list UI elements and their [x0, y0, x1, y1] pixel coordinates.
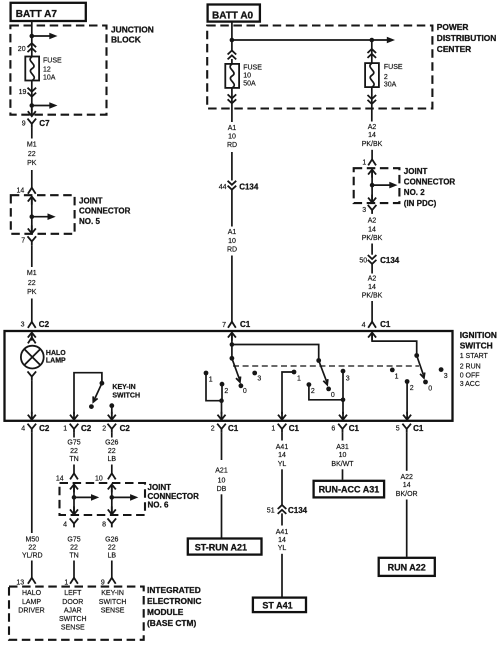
- JC6 right bus node: [110, 495, 115, 500]
- svg-text:HALO: HALO: [46, 350, 66, 357]
- svg-text:BATT A0: BATT A0: [212, 10, 254, 21]
- wafer 3 contact 3: [439, 367, 448, 380]
- svg-text:BATT A7: BATT A7: [16, 9, 58, 20]
- svg-text:RUN-ACC A31: RUN-ACC A31: [319, 485, 380, 495]
- svg-text:7: 7: [21, 238, 25, 245]
- wire G75 to CTM: [73, 561, 75, 579]
- svg-text:2: 2: [102, 426, 106, 433]
- svg-text:10: 10: [243, 73, 251, 80]
- wafer 3 position 0 dot: [423, 380, 432, 393]
- svg-text:C2: C2: [39, 320, 50, 329]
- fuse F12: [25, 57, 39, 81]
- fuse 10 value label: [243, 65, 262, 88]
- wafer 1 contact wiring to pin 2 C1: [206, 373, 222, 401]
- connector C1 pin 5: [396, 424, 424, 433]
- wafer 2 contact 3: [341, 369, 350, 383]
- wire into fuse 10: [231, 59, 233, 64]
- svg-text:A1: A1: [228, 229, 237, 236]
- wire G75 to JC6: [73, 465, 75, 474]
- svg-text:SWITCH: SWITCH: [112, 392, 140, 399]
- connector C2 pin 2: [102, 424, 130, 433]
- wafer 3 feed wire: [372, 333, 417, 356]
- svg-text:G75: G75: [67, 440, 80, 447]
- svg-text:FUSE: FUSE: [43, 57, 62, 64]
- wafer 3 blade to position 0: [417, 356, 425, 378]
- svg-text:4: 4: [21, 426, 25, 433]
- wire label M1 22 PK: [27, 141, 37, 167]
- PDC bus wire with arrow: [232, 37, 395, 44]
- destination box ST A41: [253, 598, 306, 613]
- wafer 1 contact 2 stub: [221, 384, 223, 401]
- feed arrow right from node: [32, 102, 58, 109]
- wafer 1 contact 0: [239, 383, 247, 395]
- power distribution center label: [437, 22, 497, 54]
- JC6 pin 14 connector: [56, 473, 78, 482]
- wire A1 to ignition connector C1: [231, 256, 233, 322]
- CTM left door ajar switch sense label: [59, 590, 87, 632]
- fuse 12 value label: [43, 57, 62, 81]
- svg-text:NO. 6: NO. 6: [148, 500, 169, 509]
- svg-text:13: 13: [16, 579, 24, 586]
- wire label G75 22 TN upper: [67, 440, 80, 464]
- pin 5 C1 exit arrow: [403, 412, 411, 420]
- svg-text:AJAR: AJAR: [64, 608, 82, 615]
- fuse 2 value label: [384, 64, 403, 88]
- svg-text:2: 2: [224, 388, 228, 395]
- wafer 2 contacts 2+3 wiring to pin 6 C1: [309, 371, 343, 414]
- wire label A2 14 PK/BK middle: [362, 218, 383, 243]
- wafer 3 contact 1: [390, 368, 399, 381]
- svg-text:22: 22: [28, 151, 36, 158]
- wire G26 to JC6: [111, 465, 113, 474]
- svg-text:9: 9: [22, 121, 26, 128]
- svg-text:PK/BK: PK/BK: [362, 235, 383, 242]
- wire A21 from pin 2 C1: [221, 433, 223, 460]
- svg-text:KEY-IN: KEY-IN: [101, 590, 124, 597]
- joint connector no.6 dashed box: [60, 483, 146, 515]
- svg-text:YL: YL: [278, 545, 287, 552]
- svg-text:A2: A2: [368, 124, 377, 131]
- svg-text:LB: LB: [108, 456, 117, 463]
- svg-text:DISTRIBUTION: DISTRIBUTION: [437, 33, 497, 43]
- wire A41 below C134: [281, 513, 283, 525]
- wafer 1 pivot dot: [230, 356, 235, 361]
- svg-text:22: 22: [70, 544, 78, 551]
- wire label A31 10 BK/WT: [331, 444, 354, 468]
- svg-text:LAMP: LAMP: [22, 599, 41, 606]
- wafer 3 contact 2: [405, 379, 414, 392]
- svg-text:CONNECTOR: CONNECTOR: [404, 178, 456, 187]
- svg-text:IGNITION: IGNITION: [460, 330, 497, 340]
- svg-text:JUNCTION: JUNCTION: [111, 25, 154, 35]
- JC6 left exit arrow: [70, 506, 78, 514]
- svg-text:SENSE: SENSE: [61, 625, 85, 632]
- JC6 left entry arrow: [70, 484, 78, 492]
- wire BATT A7 to fuse 12: [31, 21, 33, 57]
- svg-text:INTEGRATED: INTEGRATED: [147, 585, 201, 595]
- svg-text:G26: G26: [105, 536, 118, 543]
- wire label A22 14 BK/OR: [396, 474, 418, 498]
- pin 1 C1 exit arrow: [278, 412, 286, 420]
- svg-text:10: 10: [228, 238, 236, 245]
- pin 2 C1 exit arrow: [218, 412, 226, 420]
- svg-text:A2: A2: [368, 276, 377, 283]
- wire M1 to ignition connector C2: [31, 299, 33, 323]
- svg-text:2 RUN: 2 RUN: [460, 363, 481, 370]
- JC2 exit arrow: [368, 195, 376, 203]
- wire M1 upper: [31, 128, 33, 139]
- svg-text:14: 14: [403, 482, 411, 489]
- fuse 2 bottom chevrons: [368, 95, 377, 104]
- svg-text:C2: C2: [81, 424, 92, 433]
- CTM pin 13 connector: [16, 578, 35, 587]
- svg-text:1: 1: [395, 373, 399, 380]
- integrated electronic module label: [147, 585, 201, 628]
- svg-text:22: 22: [108, 448, 116, 455]
- wafer 1 contact 2: [220, 382, 229, 395]
- wire A2 to C134: [371, 244, 373, 255]
- svg-text:A41: A41: [276, 529, 289, 536]
- svg-text:TN: TN: [69, 456, 78, 463]
- ignition switch box: [5, 331, 453, 421]
- svg-text:2: 2: [311, 388, 315, 395]
- wire A21 to ST-RUN box: [221, 494, 223, 537]
- svg-text:44: 44: [219, 184, 227, 191]
- wire label A1 10 RD upper: [227, 125, 237, 149]
- wire to pin 2 C1: [221, 401, 223, 414]
- JC6 right entry arrow: [108, 484, 116, 492]
- wire A41 to C134: [281, 469, 283, 504]
- connector C7 pin 9: [22, 108, 50, 128]
- svg-text:MODULE: MODULE: [147, 607, 184, 617]
- svg-text:1: 1: [63, 426, 67, 433]
- CTM halo lamp driver label: [18, 590, 44, 614]
- destination box RUN-ACC A31: [314, 481, 385, 498]
- JC6 pin 4 connector: [63, 518, 78, 528]
- wire A2 stub from bus: [371, 40, 373, 64]
- svg-text:14: 14: [56, 475, 64, 482]
- svg-text:10: 10: [339, 452, 347, 459]
- svg-text:CONNECTOR: CONNECTOR: [79, 207, 131, 216]
- svg-text:SWITCH: SWITCH: [460, 340, 493, 350]
- wire label A41 14 YL lower: [276, 529, 289, 552]
- svg-text:4: 4: [362, 322, 366, 329]
- svg-text:ST A41: ST A41: [262, 600, 292, 610]
- wafer 3 pivot dot: [414, 353, 419, 358]
- joint connector no.5 label: [79, 197, 131, 227]
- ignition switch gang dashed line: [233, 365, 419, 367]
- wire A2 below C134: [371, 264, 373, 274]
- wire label G26 22 LB upper: [105, 440, 118, 464]
- svg-text:3: 3: [257, 376, 261, 383]
- inline connector C134 pin 44: [219, 181, 259, 192]
- fuse 10 top chevrons: [228, 51, 237, 60]
- wire label M1 22 PK lower: [27, 270, 37, 296]
- halo lamp internal connector chevron: [28, 333, 36, 344]
- wafer 2 output node: [341, 398, 346, 403]
- destination box RUN A22: [379, 558, 435, 576]
- wire M50 from pin 4 C2: [31, 433, 33, 533]
- JC6 right internal wire: [111, 486, 113, 513]
- svg-text:(BASE CTM): (BASE CTM): [147, 618, 197, 628]
- svg-text:14: 14: [278, 452, 286, 459]
- JC6 left internal wire: [73, 486, 75, 513]
- wire G26 to CTM: [111, 561, 113, 579]
- inline connector C134 pin 50: [359, 255, 399, 265]
- wire A41 to ST box: [281, 554, 283, 597]
- switch wafer 3 entry arrow (pin 4 C1): [368, 333, 376, 341]
- key-in pin2 exit arrow: [108, 412, 116, 420]
- svg-text:DOOR: DOOR: [62, 599, 83, 606]
- svg-text:51: 51: [267, 507, 275, 514]
- svg-text:RD: RD: [227, 142, 237, 149]
- switch wafer 1 entry arrow (pin 7 C1): [228, 333, 236, 341]
- wafer 1 feed wire: [231, 333, 233, 359]
- key-in switch blade end dot: [89, 404, 94, 409]
- svg-text:JOINT: JOINT: [404, 167, 428, 176]
- svg-text:C134: C134: [288, 506, 308, 515]
- wire A41 from pin 1 C1: [281, 433, 283, 441]
- connector C1 pin 6: [331, 424, 359, 433]
- svg-text:C2: C2: [120, 424, 131, 433]
- svg-text:BK/WT: BK/WT: [331, 461, 354, 468]
- battery feed box BATT A7: [11, 3, 86, 21]
- svg-text:FUSE: FUSE: [243, 65, 262, 72]
- node load side of fuse 12: [30, 103, 35, 108]
- fuse 2 top chevrons: [368, 49, 377, 58]
- node fuse 2 feed: [370, 38, 375, 43]
- JC6 left bus node: [72, 495, 77, 500]
- svg-text:10A: 10A: [43, 74, 56, 81]
- wire BATT A0 down to bus: [231, 22, 233, 51]
- svg-text:1 START: 1 START: [460, 353, 489, 360]
- JC6 right exit arrow: [108, 506, 116, 514]
- svg-text:2: 2: [384, 74, 388, 81]
- svg-text:KEY-IN: KEY-IN: [112, 384, 135, 391]
- joint connector no.5 dashed box: [11, 195, 75, 234]
- svg-text:JOINT: JOINT: [148, 483, 172, 492]
- JC6 left feed arrow right: [74, 494, 99, 501]
- svg-text:PK: PK: [27, 289, 37, 296]
- svg-text:DB: DB: [217, 486, 227, 493]
- svg-text:YL/RD: YL/RD: [22, 552, 43, 559]
- JC2 entry arrow: [368, 170, 376, 178]
- connector C1 pin 4 at ignition switch: [362, 320, 391, 329]
- svg-text:A1: A1: [228, 125, 237, 132]
- wire A22 from pin 5 C1: [406, 433, 408, 471]
- destination box ST-RUN A21: [188, 539, 262, 555]
- svg-text:4: 4: [63, 521, 67, 528]
- pin 6 C1 exit arrow: [339, 412, 347, 420]
- svg-text:0: 0: [331, 392, 335, 399]
- wafer 1 contact 1: [204, 371, 213, 384]
- svg-text:22: 22: [28, 280, 36, 287]
- svg-text:PK: PK: [27, 160, 37, 167]
- svg-text:0: 0: [428, 385, 432, 392]
- JC6 right feed arrow right: [112, 494, 139, 501]
- svg-text:50A: 50A: [243, 81, 256, 88]
- svg-text:A2: A2: [368, 218, 377, 225]
- halo lamp label: [46, 350, 66, 365]
- svg-text:LAMP: LAMP: [46, 357, 66, 364]
- svg-text:SWITCH: SWITCH: [59, 616, 87, 623]
- svg-text:50: 50: [359, 258, 367, 265]
- svg-text:M50: M50: [25, 536, 39, 543]
- JC5 entry arrow: [28, 197, 36, 205]
- halo lamp exit arrow: [28, 412, 36, 420]
- joint connector 2 pin 1: [362, 159, 376, 166]
- joint connector no.6 label: [148, 483, 200, 510]
- key-in switch label: [112, 384, 140, 399]
- wire halo lamp to pin 4 C2: [31, 380, 33, 414]
- svg-text:22: 22: [108, 544, 116, 551]
- svg-text:14: 14: [17, 187, 25, 194]
- svg-text:C1: C1: [349, 424, 360, 433]
- svg-text:NO. 5: NO. 5: [79, 217, 100, 226]
- svg-text:6: 6: [331, 426, 335, 433]
- svg-text:DRIVER: DRIVER: [18, 608, 44, 615]
- wire label A21 10 DB: [215, 467, 228, 493]
- svg-text:7: 7: [222, 322, 226, 329]
- wire label A41 14 YL upper: [276, 444, 289, 468]
- key-in switch pivot dot: [100, 381, 105, 386]
- svg-text:CENTER: CENTER: [437, 44, 471, 54]
- wafer 2 contact 1: [292, 370, 301, 383]
- wafer 3 contact 2 wire to pin 5 C1: [406, 382, 408, 415]
- svg-text:C1: C1: [380, 320, 391, 329]
- svg-text:SWITCH: SWITCH: [99, 599, 127, 606]
- wire label A1 10 RD lower: [227, 229, 237, 253]
- wafer 1 contact 3: [252, 371, 261, 383]
- CTM key-in switch sense label: [99, 590, 127, 614]
- wire A2 to ignition connector C1: [371, 301, 373, 322]
- fuse 10 bottom chevrons: [228, 94, 237, 103]
- pin 20 connector chevrons: [18, 43, 36, 53]
- svg-text:5: 5: [396, 426, 400, 433]
- svg-text:2: 2: [211, 426, 215, 433]
- svg-text:JOINT: JOINT: [79, 197, 103, 206]
- svg-text:1: 1: [64, 579, 68, 586]
- svg-text:(IN PDC): (IN PDC): [404, 199, 437, 208]
- svg-text:2: 2: [410, 385, 414, 392]
- wafer 1 feed node: [230, 342, 235, 347]
- power distribution center dashed box: [207, 26, 432, 109]
- svg-text:14: 14: [368, 227, 376, 234]
- svg-text:22: 22: [70, 448, 78, 455]
- wire label A2 14 PK/BK lower: [362, 276, 383, 300]
- svg-text:RUN A22: RUN A22: [388, 563, 426, 573]
- wire G26 from pin 2 C2: [111, 433, 113, 438]
- svg-text:YL: YL: [278, 461, 287, 468]
- svg-text:A41: A41: [276, 444, 289, 451]
- wire label M50 22 YL/RD: [22, 536, 43, 559]
- svg-text:8: 8: [102, 521, 106, 528]
- svg-text:A31: A31: [336, 444, 349, 451]
- JC5 bus node: [30, 214, 35, 219]
- svg-text:22: 22: [28, 544, 36, 551]
- wire A31 to RUN-ACC box: [342, 469, 344, 480]
- svg-text:9: 9: [101, 579, 105, 586]
- JC2 bus node: [370, 183, 375, 188]
- connector C1 pin 1: [271, 424, 299, 433]
- CTM pin 1 connector: [64, 578, 78, 587]
- svg-text:19: 19: [19, 89, 27, 96]
- crossover wire wafer1 to wafer2: [232, 345, 319, 361]
- svg-text:A21: A21: [215, 467, 228, 474]
- svg-text:HALO: HALO: [22, 590, 42, 597]
- wafer 2 pivot dot: [316, 358, 321, 363]
- svg-text:0: 0: [243, 388, 247, 395]
- connector C2 pin 3 at ignition switch: [21, 320, 50, 329]
- svg-text:SENSE: SENSE: [101, 608, 125, 615]
- JC6 pin 10 connector: [95, 473, 116, 482]
- svg-text:1: 1: [297, 375, 301, 382]
- svg-text:LEFT: LEFT: [64, 590, 82, 597]
- svg-text:C7: C7: [39, 119, 50, 128]
- svg-text:FUSE: FUSE: [384, 64, 403, 71]
- JC5 internal wire: [31, 198, 33, 232]
- ignition switch label: [460, 330, 497, 388]
- JC5 feed arrow right: [32, 213, 56, 220]
- svg-text:PK/BK: PK/BK: [362, 293, 383, 300]
- svg-text:14: 14: [278, 537, 286, 544]
- svg-text:C134: C134: [239, 183, 259, 192]
- svg-text:LB: LB: [108, 552, 117, 559]
- svg-text:3 ACC: 3 ACC: [460, 381, 480, 388]
- key-in switch S1: [74, 373, 102, 414]
- pin 19 connector chevrons: [19, 88, 36, 97]
- wafer 1 blade to position 0: [232, 358, 241, 382]
- svg-text:3: 3: [362, 207, 366, 214]
- joint connector 2 pin 3: [362, 205, 376, 214]
- svg-text:3: 3: [21, 321, 25, 328]
- svg-text:14: 14: [368, 284, 376, 291]
- wire label G75 22 TN lower: [67, 536, 80, 559]
- svg-text:10: 10: [218, 477, 226, 484]
- svg-text:PK/BK: PK/BK: [362, 141, 383, 148]
- wire fuse 12 to connector C7: [31, 81, 33, 112]
- halo lamp HL1: [21, 346, 44, 369]
- connector C2 pin 1: [63, 424, 92, 433]
- svg-text:10: 10: [228, 134, 236, 141]
- wire A2 to joint connector 2: [371, 150, 373, 160]
- svg-text:3: 3: [444, 373, 448, 380]
- svg-text:G26: G26: [105, 440, 118, 447]
- integrated electronic module dashed box: [9, 587, 144, 640]
- halo lamp entry arrow: [28, 333, 36, 341]
- junction block dashed box: [10, 26, 106, 115]
- wafer 2 contact 2: [307, 382, 315, 395]
- key-in switch contact dot: [109, 403, 114, 414]
- junction block label: [111, 25, 154, 45]
- wire M1 to joint connector 5: [31, 170, 33, 188]
- svg-text:1: 1: [271, 426, 275, 433]
- fuse F10: [225, 64, 239, 88]
- wire M1 lower: [31, 245, 33, 267]
- svg-text:RD: RD: [227, 246, 237, 253]
- svg-text:C1: C1: [413, 424, 424, 433]
- wire label G26 22 LB lower: [105, 536, 118, 559]
- joint connector no.2 dashed box: [354, 168, 400, 203]
- svg-text:TN: TN: [69, 552, 78, 559]
- JC2 internal wire: [371, 171, 373, 201]
- svg-text:1: 1: [362, 160, 366, 167]
- CTM pin 9 connector: [101, 578, 116, 587]
- svg-text:10: 10: [95, 475, 103, 482]
- svg-text:C1: C1: [240, 320, 251, 329]
- svg-text:NO. 2: NO. 2: [404, 188, 425, 197]
- svg-text:0 OFF: 0 OFF: [460, 372, 480, 379]
